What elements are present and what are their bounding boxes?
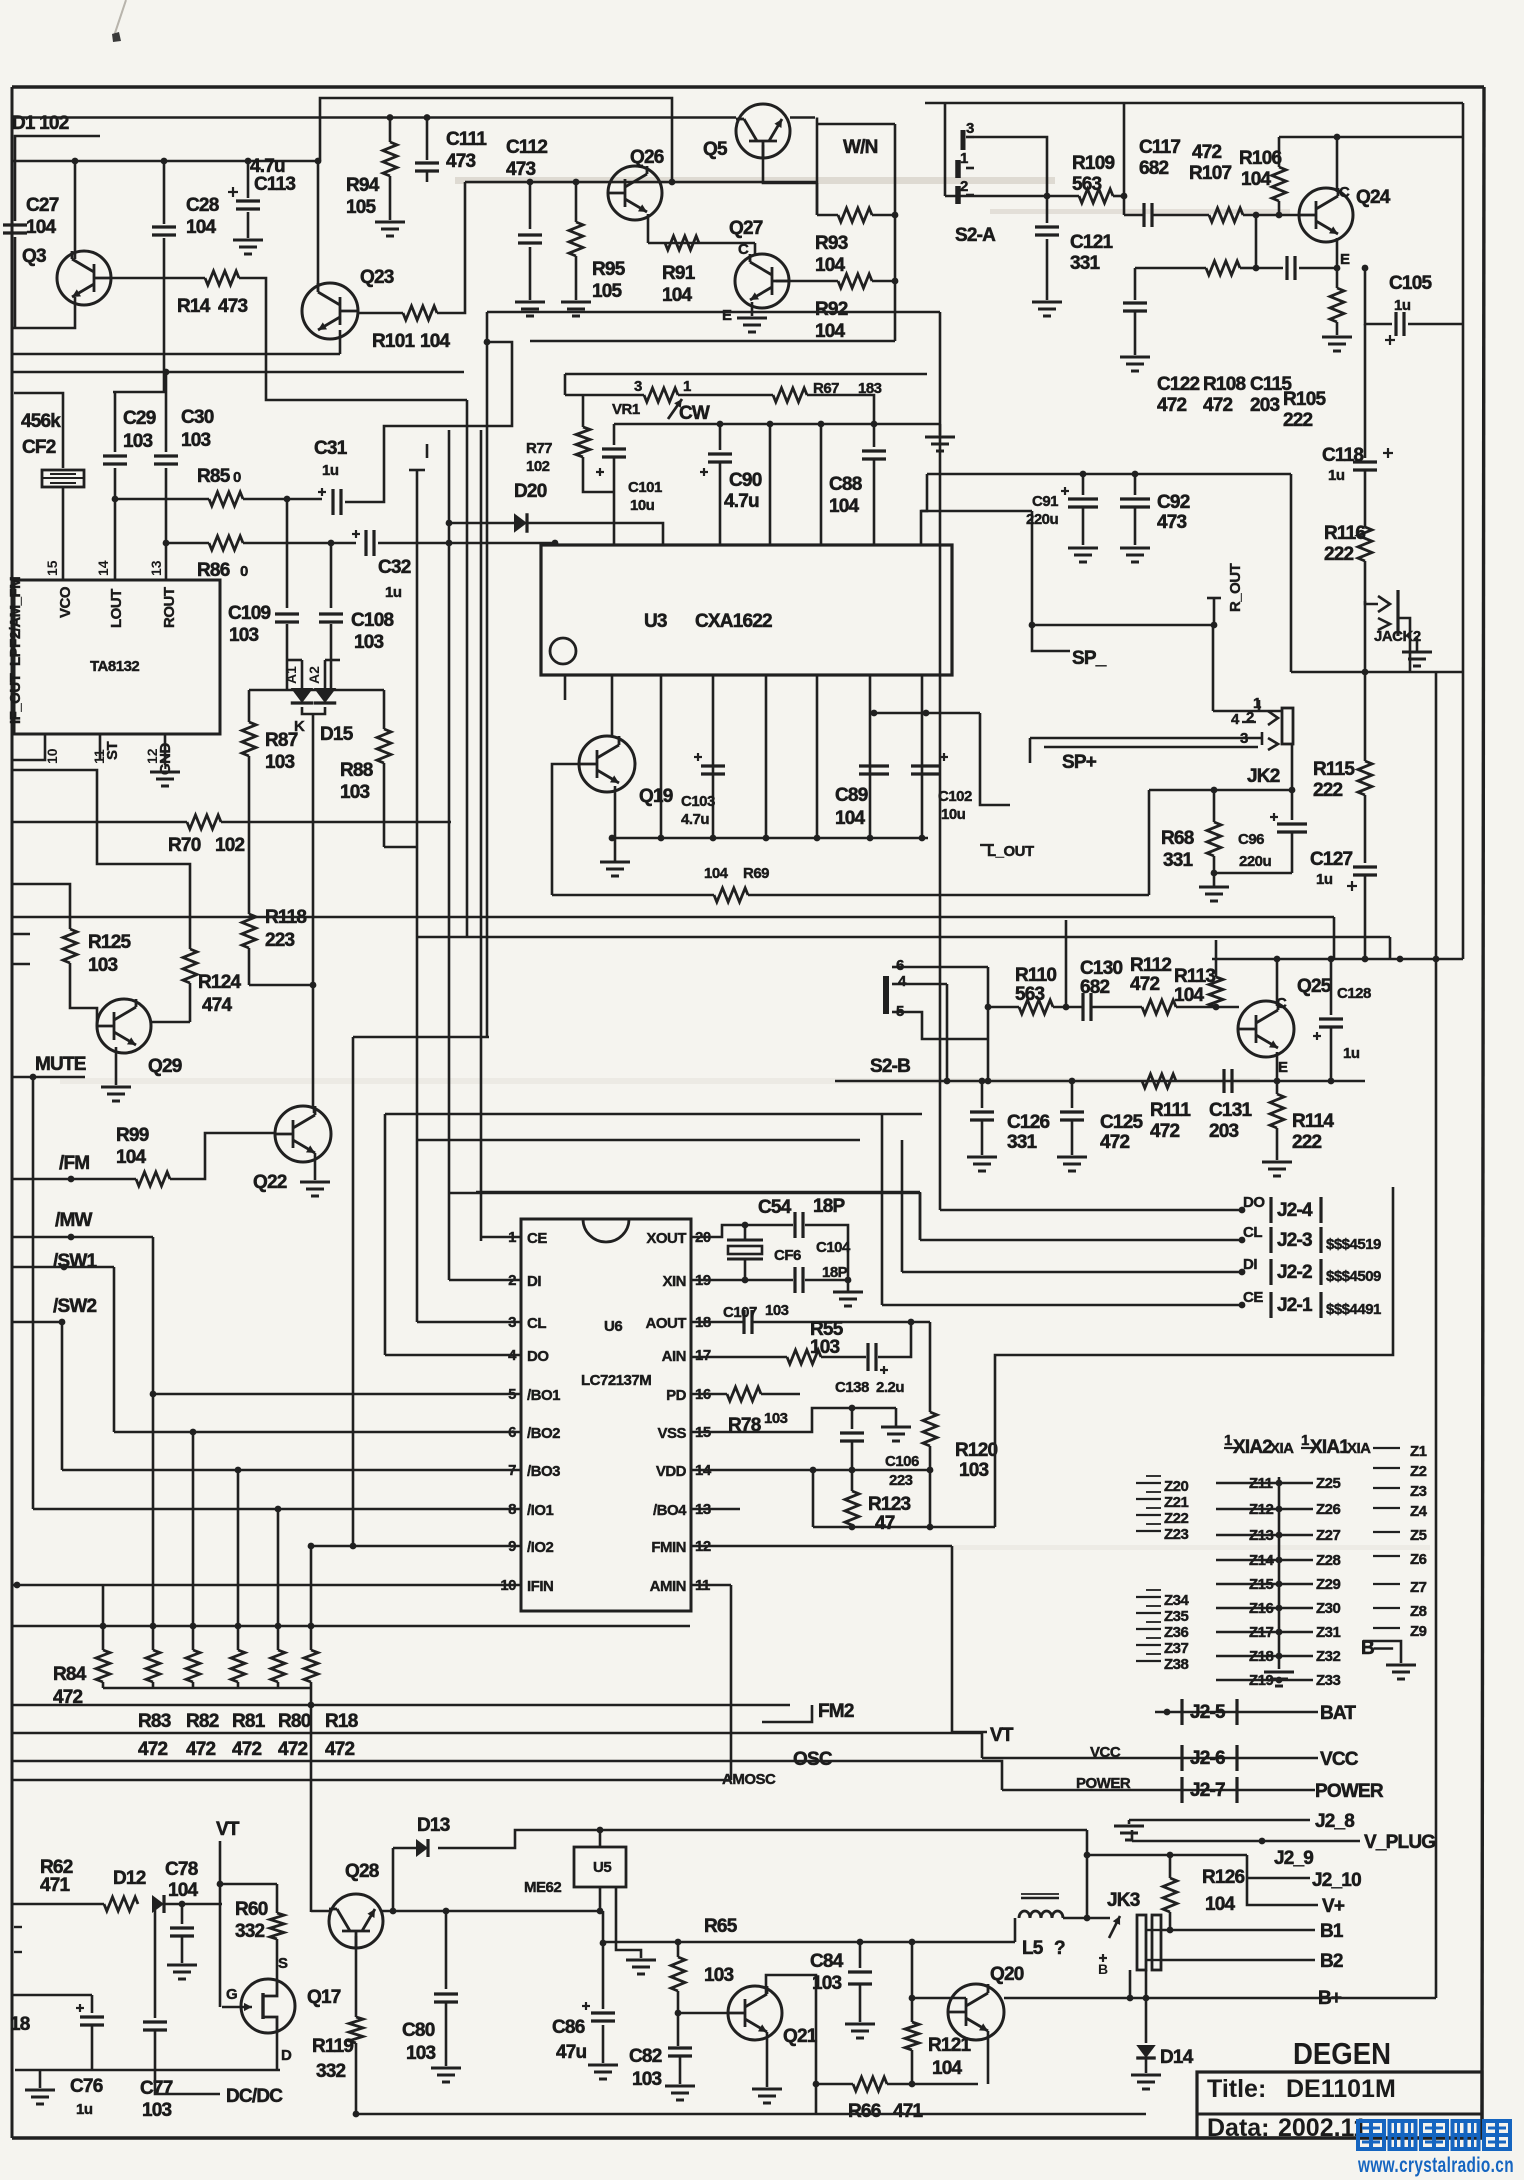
junction <box>1276 1480 1283 1487</box>
wire S2A pin2 row <box>945 195 1079 198</box>
wire pin2 DI <box>449 1279 521 1282</box>
svg-text:472: 472 <box>1157 395 1187 416</box>
svg-text:CL: CL <box>527 1315 546 1332</box>
svg-text:C31: C31 <box>314 438 348 459</box>
svg-text:C112: C112 <box>506 137 547 158</box>
wire D20 left <box>449 522 514 525</box>
wire right rail drop <box>1290 474 1293 672</box>
scan smudge band <box>455 177 1055 184</box>
wire bus mid2 <box>12 371 464 374</box>
wire D13 left <box>393 1847 416 1850</box>
wire C78 top <box>181 1904 184 1924</box>
wire SP down <box>1031 511 1034 625</box>
ground VSS <box>895 1408 898 1427</box>
svg-text:R92: R92 <box>815 299 848 320</box>
ground bottom left <box>25 2089 55 2092</box>
wire pin14 VDD <box>691 1469 930 1472</box>
wire pin6 /BO2 <box>114 1431 521 1434</box>
svg-text:D1 102: D1 102 <box>12 113 69 134</box>
svg-text:Data:: Data: <box>1207 2114 1270 2142</box>
transistor Q22 <box>275 1106 331 1162</box>
wire R88 to bus <box>384 846 417 849</box>
wire WN right edge <box>894 124 897 341</box>
capacitor C105 <box>1394 312 1397 336</box>
wire rail 1527 <box>813 1526 995 1529</box>
wire R60 top <box>276 1884 279 1913</box>
svg-text:47u: 47u <box>556 2042 587 2063</box>
svg-text:C128: C128 <box>1337 985 1371 1002</box>
wire pin1 CE <box>481 1236 521 1239</box>
ground under C122 <box>1120 356 1150 359</box>
wire MW down <box>152 1237 155 1394</box>
svg-text:Z26: Z26 <box>1316 1501 1341 1518</box>
connector J2-4 bars <box>1269 1197 1272 1223</box>
svg-text:10u: 10u <box>941 806 966 823</box>
svg-text:XIA2: XIA2 <box>1233 1437 1272 1458</box>
wire CE J2 row <box>882 1304 1242 1307</box>
svg-text:C109: C109 <box>228 603 270 624</box>
wire S2B pin5 route <box>902 1012 988 1039</box>
junction <box>573 179 580 186</box>
svg-text:DEGEN: DEGEN <box>1293 2036 1391 2071</box>
svg-text:C82: C82 <box>629 2046 662 2067</box>
capacitor C82 <box>668 2046 692 2049</box>
transistor Q25 <box>1238 1001 1294 1057</box>
ground under R105 <box>1322 336 1352 339</box>
wire R109 right loop <box>1113 195 1124 198</box>
IC U5 ME62 <box>574 1847 626 1887</box>
svg-text:/BO2: /BO2 <box>527 1425 560 1442</box>
svg-text:Z22: Z22 <box>1164 1510 1189 1527</box>
junction <box>1433 956 1440 963</box>
plus sign C118 <box>1383 452 1393 454</box>
svg-text:472: 472 <box>1130 974 1160 995</box>
junction <box>68 1234 75 1241</box>
wire R105 bottom <box>1336 322 1339 335</box>
wire R109 loop vertical <box>1123 103 1126 215</box>
svg-text:Z4: Z4 <box>1410 1503 1428 1520</box>
border frame left <box>11 87 14 2138</box>
ground under C84 <box>845 2023 875 2026</box>
wire R110-C130 <box>1053 1006 1083 1009</box>
plus sign C86 <box>582 2005 590 2007</box>
svg-text:FM2: FM2 <box>818 1701 854 1722</box>
tick Z36 <box>1136 1628 1161 1630</box>
wire C121 top <box>1046 196 1049 223</box>
resistor R118 <box>242 914 256 948</box>
svg-text:/BO4: /BO4 <box>653 1502 687 1519</box>
wire B+ row <box>1004 1997 1315 2000</box>
wire R69 right <box>748 894 1149 897</box>
wire C122 bottom <box>1134 311 1137 355</box>
wire CE link drop <box>919 1192 922 1240</box>
wire R87 top <box>248 690 251 722</box>
resistor R93 <box>838 208 872 222</box>
svg-text:Z31: Z31 <box>1316 1624 1341 1641</box>
svg-text:/IO1: /IO1 <box>527 1502 554 1519</box>
svg-text:Q21: Q21 <box>783 2026 818 2047</box>
svg-text:203: 203 <box>1250 395 1280 416</box>
wire R70 left <box>12 821 187 824</box>
wire C121 bottom <box>1046 239 1049 300</box>
svg-text:10: 10 <box>44 748 60 764</box>
wire bundle V467 <box>466 400 469 937</box>
svg-text:VR1: VR1 <box>612 401 640 418</box>
wire R125 bottom <box>69 963 72 1000</box>
wire B2 row <box>1160 1959 1315 1962</box>
tick Z4 <box>1373 1507 1400 1509</box>
svg-text:331: 331 <box>1070 253 1101 274</box>
wire pin17 AIN <box>691 1356 787 1359</box>
junction <box>484 339 491 346</box>
wire R114 bottom <box>1276 1128 1279 1160</box>
wire C107 right <box>752 1321 930 1324</box>
ground under C113 <box>233 239 263 242</box>
wire J2_9 row link <box>1087 1854 1247 1856</box>
wire C86 top <box>602 1911 605 2009</box>
svg-text:14: 14 <box>95 560 111 576</box>
plus sign C96 <box>1270 816 1278 818</box>
wire pin15 VSS <box>691 1408 896 1432</box>
wire Q23 emitter <box>339 330 342 354</box>
plus sign C31 <box>318 491 326 493</box>
wire JK2 out <box>1291 744 1294 790</box>
junction <box>275 1623 282 1630</box>
wire Q28 base lead <box>355 1936 358 2017</box>
ground under C112 <box>515 301 545 304</box>
wire rail right gnd <box>939 424 942 435</box>
wire U3 bottom pin 6 <box>816 675 819 838</box>
wire pin1 feed <box>480 1240 483 1243</box>
wire C115 right <box>1299 267 1337 270</box>
wire R77 top <box>582 395 585 427</box>
svg-text:LC72137M: LC72137M <box>581 1372 651 1389</box>
ground under C126 <box>967 1156 997 1159</box>
wire bank column x153 <box>152 1394 155 1650</box>
resistor R108 <box>1206 261 1240 275</box>
IC U3 CXA1622 <box>541 545 952 675</box>
junction <box>923 710 930 717</box>
svg-text:VDD: VDD <box>656 1463 687 1480</box>
capacitor C31 <box>331 489 334 515</box>
wire step to J2 <box>995 1187 1393 1527</box>
resistor R126 <box>1163 1878 1177 1912</box>
svg-text:1u: 1u <box>1316 871 1333 888</box>
junction <box>446 540 453 547</box>
svg-text:C78: C78 <box>165 1859 198 1880</box>
resistor R85 <box>209 492 243 506</box>
wire CF6 bottom stub <box>744 1259 747 1280</box>
junction <box>919 835 926 842</box>
wire Q23 emitter to bus <box>319 353 340 356</box>
junction <box>1029 622 1036 629</box>
svg-text:R93: R93 <box>815 233 848 254</box>
connector J2-7 bars <box>1180 1777 1183 1803</box>
svg-text:1u: 1u <box>1328 467 1345 484</box>
wire pin12 FMIN <box>691 1545 952 1548</box>
wire C77 bottom <box>154 2030 157 2070</box>
wire R69 left <box>552 894 714 897</box>
wire pin16 PD <box>691 1393 727 1396</box>
svg-text:C104: C104 <box>816 1239 851 1256</box>
title block box <box>1197 2072 1482 2138</box>
svg-text:C126: C126 <box>1007 1112 1049 1133</box>
svg-text:Z35: Z35 <box>1164 1608 1189 1625</box>
junction <box>609 835 616 842</box>
wire R121 bottom <box>911 2050 914 2084</box>
junction <box>927 1524 934 1531</box>
svg-text:/BO1: /BO1 <box>527 1387 560 1404</box>
svg-text:V+: V+ <box>1322 1896 1345 1917</box>
tick Z21 <box>1136 1498 1161 1500</box>
svg-text:CE: CE <box>1243 1289 1263 1306</box>
ground under Q27 <box>737 317 767 320</box>
svg-text:CW: CW <box>679 403 710 424</box>
wire D13 right <box>438 1830 1087 1848</box>
resistor R69 <box>714 888 748 902</box>
wire bundle H1140 <box>417 1139 860 1142</box>
svg-text:4.7u: 4.7u <box>724 491 759 512</box>
wire VT feed <box>951 1546 954 1732</box>
wire R14 to corner <box>239 278 467 400</box>
svg-text:R115: R115 <box>1313 759 1355 780</box>
svg-text:XIA: XIA <box>1270 1440 1294 1457</box>
wire C88 top <box>873 424 876 447</box>
svg-text:CF2: CF2 <box>22 437 56 458</box>
wire right top inner <box>925 102 1463 105</box>
junction <box>30 1074 37 1081</box>
U3 pin1 mark <box>550 638 576 664</box>
junction <box>275 1506 282 1513</box>
svg-text:105: 105 <box>592 281 623 302</box>
svg-text:/FM: /FM <box>59 1153 89 1174</box>
svg-text:R70: R70 <box>168 835 201 856</box>
svg-text:R112: R112 <box>1130 955 1171 976</box>
wire pin3 feed <box>416 1140 419 1322</box>
svg-text:R86: R86 <box>197 560 230 581</box>
svg-text:J2-4: J2-4 <box>1277 1200 1313 1221</box>
tick ROUT <box>1207 597 1221 600</box>
jack JK2 contact upper <box>1258 700 1261 711</box>
tick Z35 <box>1136 1612 1161 1614</box>
tick Z38 <box>1136 1660 1161 1662</box>
capacitor C111 <box>415 161 439 164</box>
wire SP+ stub <box>1029 738 1032 763</box>
tick L_OUT <box>980 844 994 846</box>
junction <box>387 114 394 121</box>
wire Q23 base row <box>358 312 403 315</box>
svg-text:/BO3: /BO3 <box>527 1463 560 1480</box>
junction <box>1334 265 1341 272</box>
wire VR1 to R67 <box>678 394 773 397</box>
svg-text:DC/DC: DC/DC <box>226 2086 283 2107</box>
junction <box>985 1078 992 1085</box>
wire Q25 collector <box>1276 959 1279 1006</box>
wire V813 <box>812 1470 815 1527</box>
wire C80 top <box>445 1911 448 1989</box>
resistor R115 <box>1358 761 1372 795</box>
capacitor C91 <box>1068 497 1098 500</box>
junction <box>163 369 170 376</box>
svg-text:18P: 18P <box>822 1264 848 1281</box>
svg-text:473: 473 <box>1157 512 1187 533</box>
wire SP row <box>1032 624 1214 627</box>
svg-text:103: 103 <box>810 1337 840 1358</box>
wire pin11 AMIN <box>691 1584 731 1587</box>
tick Z8 <box>1373 1607 1400 1609</box>
svg-text:C90: C90 <box>729 470 762 491</box>
svg-text:SP+: SP+ <box>1062 752 1097 773</box>
junction <box>1259 1838 1266 1845</box>
wire bundle V487 <box>486 312 489 1037</box>
wire JACK2 gnd stub <box>1416 636 1419 652</box>
wire D15 K join <box>302 707 325 714</box>
wire U3 bottom pin 4 <box>712 675 715 838</box>
wire SW1 row <box>12 1266 114 1269</box>
wire BAT row <box>1155 1711 1318 1714</box>
svg-text:472: 472 <box>1100 1132 1130 1153</box>
junction <box>308 1702 315 1709</box>
svg-text:DO: DO <box>1243 1194 1265 1211</box>
left edge tick2 <box>12 963 30 966</box>
capacitor C96 <box>1277 822 1307 825</box>
wire Q26 emitter lead <box>647 214 650 243</box>
junction <box>1334 134 1341 141</box>
wire R115-C127 <box>1364 795 1367 863</box>
wire R65 top <box>677 1942 680 1957</box>
svg-text:C91: C91 <box>1032 493 1058 510</box>
wire zener Z11 row <box>1216 1482 1279 1485</box>
wire L_OUT feed <box>980 713 1010 805</box>
svg-text:Z2: Z2 <box>1410 1463 1427 1480</box>
wire long bus 937 <box>417 936 1390 939</box>
wire MUTE <box>12 1076 85 1079</box>
svg-text:D: D <box>281 2047 292 2064</box>
junction <box>424 114 431 121</box>
svg-text:183: 183 <box>858 380 882 397</box>
svg-text:220u: 220u <box>1026 511 1059 528</box>
svg-text:R119: R119 <box>312 2036 353 2057</box>
wire R86 left <box>166 542 209 545</box>
junction <box>871 710 878 717</box>
svg-text:R125: R125 <box>88 932 131 953</box>
wire C122 top <box>1134 268 1137 300</box>
wire jack to vert <box>1398 618 1410 672</box>
ground under Q21 <box>752 2088 782 2091</box>
wire R88 joint <box>331 689 384 692</box>
svg-text:Z30: Z30 <box>1316 1600 1341 1617</box>
wire pin19 XIN <box>691 1279 793 1282</box>
wire Q22 emitter <box>314 1153 317 1180</box>
wire B1 from jack <box>1146 1929 1160 1931</box>
ground right of rail <box>925 436 955 439</box>
border frame right <box>1482 87 1484 2138</box>
wire C118-R116 <box>1364 470 1367 527</box>
wire C30 top <box>165 392 168 452</box>
svg-text:220u: 220u <box>1239 853 1272 870</box>
wire pin8 /IO1 <box>33 1508 521 1511</box>
wire WN top edge <box>817 123 895 126</box>
wire D15 tops <box>287 659 302 662</box>
wire C54 right <box>805 1225 848 1280</box>
svg-text:2: 2 <box>960 178 968 195</box>
junction <box>14 1582 21 1589</box>
svg-text:Z16: Z16 <box>1249 1600 1274 1617</box>
wire C96 bottom <box>1291 832 1294 873</box>
wire R88 top <box>383 690 386 729</box>
wire WN left edge <box>816 118 819 216</box>
svg-text:Q19: Q19 <box>639 786 673 807</box>
transistor Q23 <box>302 283 358 339</box>
wire R93 row <box>817 214 838 217</box>
wire bottom join <box>15 2069 280 2072</box>
svg-text:4: 4 <box>898 973 907 990</box>
junction <box>600 1940 607 1947</box>
wire pin10 down <box>12 752 45 760</box>
junction <box>1069 1078 1076 1085</box>
wire R70 right <box>221 821 451 824</box>
svg-text:C117: C117 <box>1139 137 1180 158</box>
svg-text:Q5: Q5 <box>703 139 728 160</box>
capacitor C112 <box>518 233 542 236</box>
junction <box>308 1623 315 1630</box>
wire bank column x103 <box>102 1585 105 1650</box>
svg-text:15: 15 <box>44 560 60 576</box>
svg-text:472: 472 <box>1203 395 1233 416</box>
svg-text:R123: R123 <box>868 1494 910 1515</box>
svg-text:103: 103 <box>406 2043 436 2064</box>
wire U3 bottom pin 2 <box>611 675 614 736</box>
capacitor C101 <box>602 447 626 450</box>
wire Q20 base <box>912 1997 948 2000</box>
svg-text:VT: VT <box>990 1725 1014 1746</box>
svg-text:0: 0 <box>240 563 248 580</box>
wire bus 1626 <box>12 1625 690 1628</box>
plus sign C103 <box>694 756 702 758</box>
junction <box>190 1623 197 1630</box>
svg-text:$$$4491: $$$4491 <box>1326 1301 1381 1318</box>
junction <box>1167 1852 1174 1859</box>
svg-text:472: 472 <box>325 1739 355 1760</box>
ground under Q22 <box>300 1181 330 1184</box>
svg-text:R_OUT: R_OUT <box>1227 563 1244 612</box>
capacitor C76 <box>80 2015 104 2018</box>
wire R68 bottom <box>1213 856 1216 873</box>
wire C29 top <box>114 392 117 452</box>
wire Q26 emitter to Q27 <box>648 242 755 245</box>
junction <box>979 1078 986 1085</box>
resistor R101 <box>403 306 437 320</box>
ground under R114 <box>1262 1161 1292 1164</box>
svg-text:U3: U3 <box>644 611 667 632</box>
svg-text:103: 103 <box>142 2100 172 2121</box>
tick Z23 <box>1136 1530 1161 1532</box>
junction <box>350 1543 357 1550</box>
svg-text:473: 473 <box>218 296 248 317</box>
wire R126 bottom <box>1169 1912 1172 1930</box>
diode D12 <box>152 1895 164 1913</box>
resistor R105 <box>1330 288 1344 322</box>
plus sign C138 <box>880 1369 888 1371</box>
junction <box>1276 1532 1283 1539</box>
resistor R77 <box>576 427 590 457</box>
svg-text:Z27: Z27 <box>1316 1527 1341 1544</box>
wire bundle V385 <box>384 1114 387 1355</box>
wire DI J2 row <box>902 1271 1242 1274</box>
svg-text:C92: C92 <box>1157 492 1190 513</box>
wire SW2 down <box>61 1322 64 1470</box>
svg-text:C88: C88 <box>829 474 862 495</box>
